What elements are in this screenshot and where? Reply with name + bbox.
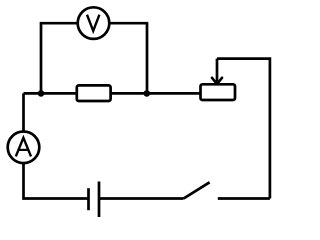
- wire: voltmeter branch right (V to right drop into junction): [110, 23, 147, 93]
- battery B1 short plate: [87, 188, 90, 210]
- voltmeter U1 circle: [78, 7, 110, 39]
- wire: main horizontal node row: [24, 92, 201, 95]
- battery B1 long plate: [98, 182, 101, 218]
- wire: right vertical riser: [217, 59, 270, 199]
- wire: voltmeter branch left (junction up and over to V): [41, 23, 77, 93]
- wiper arrowhead: [212, 78, 222, 84]
- resistor R1: [77, 85, 111, 101]
- switch S1 blade (open): [184, 182, 210, 198]
- wire: switch right contact to corner: [218, 197, 270, 200]
- label A: [16, 138, 31, 157]
- node junction dot right: [144, 90, 151, 97]
- rheostat RV1 box: [201, 84, 236, 100]
- wire: battery to switch pivot: [99, 197, 184, 200]
- wire: left side down to ammeter: [22, 93, 25, 131]
- label V: [87, 15, 99, 31]
- ammeter A1 circle: [8, 132, 40, 164]
- wire: wiper stem: [216, 59, 219, 84]
- node junction dot left: [38, 90, 45, 97]
- wire: ammeter down to bottom rail: [24, 164, 89, 199]
